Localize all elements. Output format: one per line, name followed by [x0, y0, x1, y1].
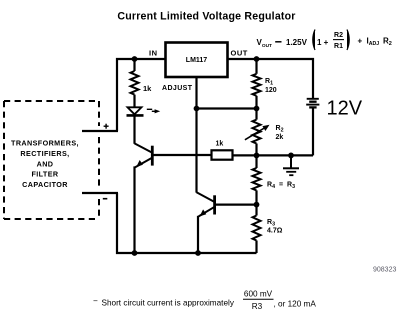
footnote short-circuit current: [93, 290, 316, 311]
wire plus terminal to top rail: [117, 59, 166, 131]
node OUT / R1: [254, 56, 260, 62]
svg-text:+: +: [358, 37, 363, 46]
svg-text:VOUT: VOUT: [257, 38, 273, 49]
svg-text:−: −: [93, 297, 98, 306]
wire Q2 emitter to bottom rail: [197, 216, 199, 253]
dashed box text: [11, 139, 79, 189]
node ADJUST junction: [194, 106, 200, 112]
wire Q1 base: [152, 154, 211, 156]
transistor Q1: [135, 143, 153, 167]
LED light arrow: [147, 109, 156, 111]
regulator U1 LM117: [166, 43, 228, 78]
svg-text:4.7Ω: 4.7Ω: [267, 227, 283, 234]
svg-text:ADJUST: ADJUST: [162, 85, 193, 92]
node ground junction: [288, 153, 294, 159]
svg-text:R3: R3: [267, 219, 275, 228]
wire ADJUST pin down: [195, 77, 197, 109]
svg-text:Current Limited Voltage Regula: Current Limited Voltage Regulator: [117, 11, 295, 23]
svg-text:2k: 2k: [276, 134, 284, 141]
transistor Q2: [197, 192, 215, 216]
svg-text:OUT: OUT: [231, 49, 248, 58]
svg-text:IADJ: IADJ: [367, 37, 380, 48]
svg-text:, or 120 mA: , or 120 mA: [274, 300, 317, 309]
wire 1k box to right rail: [233, 154, 257, 156]
svg-text:1 +: 1 +: [317, 38, 329, 47]
wire LED cathode to Q1 collector: [133, 115, 135, 143]
svg-text:R4: R4: [267, 182, 275, 191]
LED D1: [127, 107, 144, 115]
wire Q1 emitter to bottom rail: [133, 166, 135, 253]
dashed box: transformers/rectifiers/filter: [4, 101, 99, 219]
svg-text:12V: 12V: [327, 98, 363, 120]
svg-text:AND: AND: [37, 159, 54, 168]
ground: [283, 155, 299, 175]
node R1/R2/ADJ: [254, 106, 260, 112]
wire OUT to battery: [228, 59, 314, 98]
svg-text:R2: R2: [383, 37, 392, 48]
svg-text:FILTER: FILTER: [31, 170, 58, 179]
svg-text:600 mV: 600 mV: [244, 290, 273, 299]
formula Vout: [257, 30, 392, 51]
wire Q2 base: [215, 204, 257, 206]
node IN junction: [132, 56, 138, 62]
svg-text:TRANSFORMERS,: TRANSFORMERS,: [11, 139, 79, 148]
svg-text:CAPACITOR: CAPACITOR: [22, 180, 68, 189]
svg-text:1k: 1k: [143, 84, 152, 93]
node minus terminal: [82, 192, 118, 194]
svg-text:R2: R2: [334, 32, 343, 39]
node R2 bottom: [254, 153, 260, 159]
wire ADJUST junction to R1/R2 node: [197, 107, 257, 109]
node plus terminal: [82, 130, 118, 132]
resistor 1k (LED series): [133, 59, 135, 71]
resistor R3 4.7 ohm: [255, 205, 257, 216]
svg-text:RECTIFIERS,: RECTIFIERS,: [20, 149, 69, 158]
node Q2 emitter / bottom rail: [195, 250, 201, 256]
node Q1 emitter / bottom rail: [132, 250, 138, 256]
svg-text:1.25V: 1.25V: [286, 38, 308, 47]
svg-text:R3: R3: [252, 302, 263, 311]
svg-text:120: 120: [265, 87, 277, 94]
svg-text:Short circuit current is appro: Short circuit current is approximately: [102, 299, 235, 308]
wire R2 node to R4: [255, 155, 257, 168]
svg-text:908323: 908323: [373, 267, 396, 274]
wire minus terminal to bottom rail: [117, 193, 257, 253]
svg-text:R3: R3: [287, 182, 295, 191]
resistor R1 120: [255, 59, 257, 74]
svg-text:1k: 1k: [216, 141, 224, 148]
node R4/R3/Q2 base: [254, 202, 260, 208]
svg-text:R1: R1: [265, 78, 273, 87]
resistor R4: [253, 168, 261, 190]
wire ADJUST to Q2 collector: [195, 109, 197, 193]
svg-text:IN: IN: [149, 49, 158, 58]
svg-text:R1: R1: [334, 43, 343, 50]
potentiometer R2 2k: [255, 109, 257, 120]
svg-text:R2: R2: [276, 125, 284, 134]
battery 12V: [306, 99, 319, 108]
resistor 1k (box style): [212, 150, 233, 159]
wire R2 node to battery minus: [257, 154, 314, 156]
svg-text:=: =: [279, 182, 283, 189]
svg-text:LM117: LM117: [186, 57, 208, 64]
